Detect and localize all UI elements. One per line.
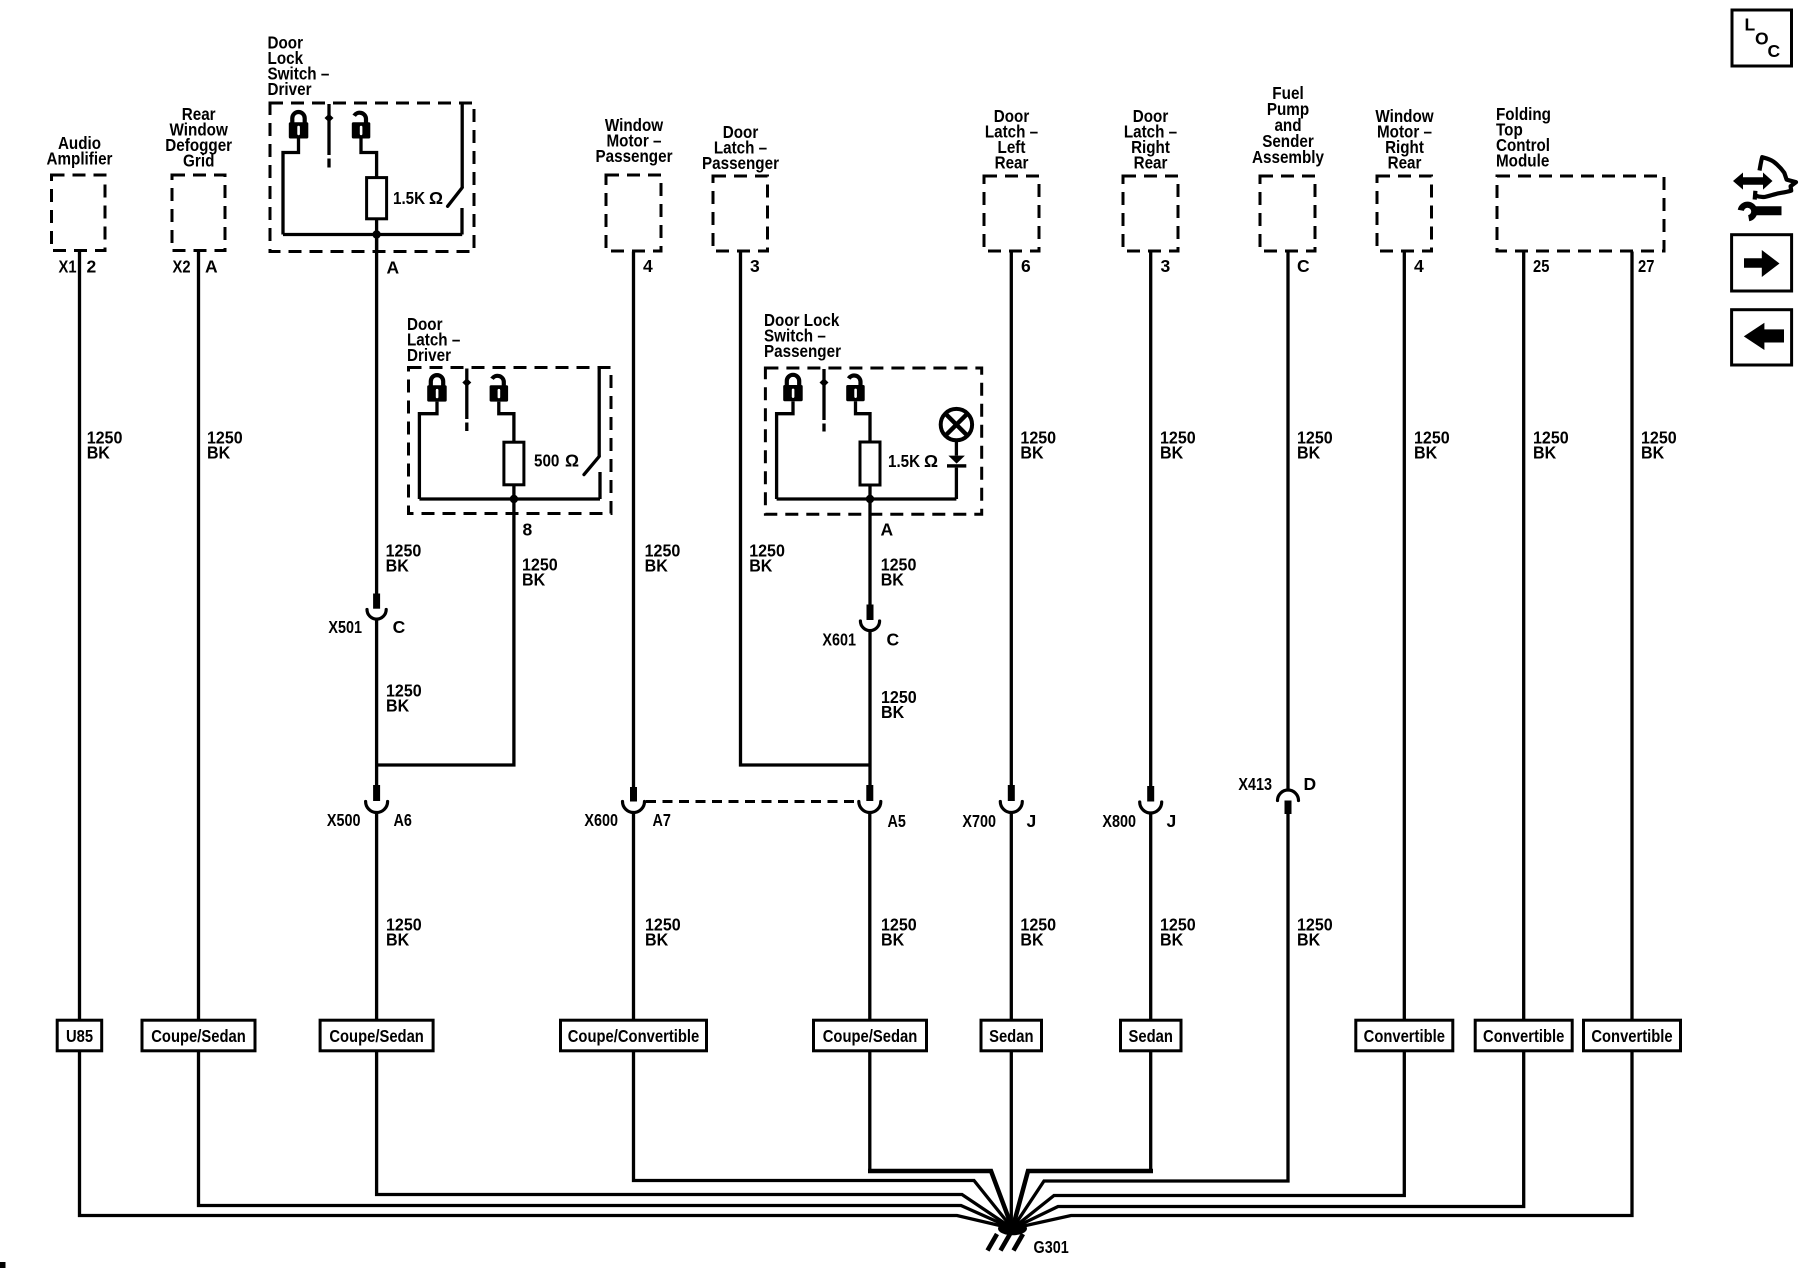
svg-text:1.5K: 1.5K (888, 451, 920, 471)
component Door Lock Switch - Driver (dashed box) (270, 103, 474, 252)
svg-text:Coupe/Sedan: Coupe/Sedan (329, 1026, 424, 1046)
wire 1250 BK from X501 to X500 (375, 619, 378, 786)
wire 1250 BK from Window Motor Right Rear pin 4 to G301 (1013, 252, 1405, 1229)
label Door Latch - Right Rear (1124, 106, 1178, 173)
wire label 1250 BK (door lock sw passenger) (881, 555, 917, 590)
connector X700 pin J (1000, 785, 1022, 813)
wire label 1250 BK (door latch driver) (522, 555, 558, 590)
ground G301 node blob (998, 1222, 1027, 1236)
svg-text:3: 3 (750, 256, 760, 276)
label Door Latch - Left Rear (985, 106, 1039, 173)
svg-text:2: 2 (87, 257, 97, 277)
svg-text:8: 8 (523, 520, 533, 540)
junction dot, Door Lock Switch Passenger (866, 495, 874, 503)
component Window Motor - Passenger (dashed box) (606, 175, 661, 251)
component Folding Top Control Module (dashed box) (1497, 176, 1664, 251)
label Door Latch - Passenger (702, 122, 779, 173)
switch common contact arm with pivot diamond, Door Lock Switch Driver (325, 104, 334, 168)
svg-text:Convertible: Convertible (1364, 1026, 1446, 1046)
junction dot, Door Latch Driver (510, 495, 518, 503)
label Window Motor - Right Rear (1375, 106, 1434, 173)
wire 1250 BK from Audio Amplifier X1-2 to G301 (80, 251, 1013, 1229)
svg-text:Convertible: Convertible (1483, 1026, 1565, 1046)
svg-text:BK: BK (1020, 442, 1044, 462)
svg-text:C: C (1297, 256, 1310, 276)
svg-text:A6: A6 (394, 810, 413, 830)
option box U85 (57, 1020, 101, 1051)
option box Coupe/Sedan (door lock switch driver) (320, 1020, 433, 1051)
svg-text:Convertible: Convertible (1591, 1026, 1673, 1046)
svg-text:Rear: Rear (995, 153, 1029, 173)
wire from open-lock contact to resistor, Door Latch Driver (499, 402, 514, 443)
svg-text:Sedan: Sedan (989, 1026, 1033, 1046)
bottom rail wire, Door Lock Switch Driver (283, 233, 462, 236)
svg-text:BK: BK (1297, 442, 1321, 462)
resistor 1.5K ohm, Door Lock Switch Driver (367, 178, 387, 219)
wire junction to pin A, Door Lock Switch Driver (375, 235, 378, 252)
option box Coupe/Sedan (defogger) (142, 1020, 255, 1051)
wire label 1250 BK (door latch passenger) (749, 541, 785, 576)
svg-text:X800: X800 (1102, 811, 1136, 831)
svg-text:C: C (887, 630, 900, 650)
wire label 1250 BK (fuel pump) (1297, 427, 1333, 462)
component Fuel Pump and Sender Assembly (dashed box) (1260, 176, 1315, 251)
svg-text:Rear: Rear (1388, 153, 1422, 173)
wire 1250 BK from Folding Top Control Module pin 25 to G301 (1013, 252, 1524, 1229)
wire 1250 BK from X600 to G301 (634, 813, 1013, 1229)
wire lamp to diode (955, 440, 958, 455)
wire 1250 BK from Window Motor Passenger pin 4 to X600 (632, 252, 635, 788)
svg-text:BK: BK (645, 929, 669, 949)
svg-text:4: 4 (1414, 256, 1424, 276)
connector X500 pin A6 (366, 785, 388, 813)
svg-text:BK: BK (749, 556, 773, 576)
padlock open icon (unlock position), Door Lock Switch Passenger (846, 376, 865, 402)
switch common contact arm with pivot diamond, Door Lock Switch Passenger (820, 369, 829, 432)
wire 1250 BK from X800 to G301 (1149, 813, 1152, 1171)
wire resistor to bottom rail, Door Latch Driver (512, 485, 515, 499)
switch contact vertical, Door Latch Driver (598, 369, 601, 457)
wire thick bus from A5 branch into G301 (868, 1171, 1013, 1229)
wire label 1250 BK (above fuel pump bend) (1297, 914, 1333, 949)
label Rear Window Defogger Grid (165, 104, 232, 171)
wire label 1250 BK (above Coupe/Sedan 3) (881, 914, 917, 949)
svg-text:A: A (881, 520, 894, 540)
wire 1250 BK from Door Latch Left Rear pin 6 to X700 (1010, 252, 1013, 786)
svg-text:BK: BK (386, 556, 410, 576)
connector A5 (859, 785, 881, 813)
label Door Lock Switch - Passenger (764, 310, 841, 361)
svg-text:D: D (1304, 774, 1317, 794)
svg-text:Sedan: Sedan (1129, 1026, 1173, 1046)
wire from closed-lock contact to bottom rail, Door Lock Switch Passenger (777, 401, 793, 499)
wire label 1250 BK (door latch left rear) (1020, 427, 1056, 462)
wire label 1250 BK (above Sedan 2) (1160, 914, 1196, 949)
wire 1250 BK from Door Latch Driver pin 8 to junction (377, 499, 514, 765)
svg-text:C: C (393, 617, 406, 637)
wire label 1250 BK (above Coupe/Convertible) (645, 914, 681, 949)
wire label 1250 BK (defogger) (207, 427, 243, 462)
option box Coupe/Sedan (door lock switch passenger) (814, 1020, 927, 1051)
indicator lamp (circle-X), Door Lock Switch Passenger (941, 409, 972, 440)
option box Convertible (FTCM 25) (1475, 1020, 1572, 1051)
wire 1250 BK from Folding Top Control Module pin 27 to G301 (1013, 252, 1633, 1229)
option box Coupe/Convertible (window motor passenger) (561, 1020, 707, 1051)
component Door Latch - Driver (dashed box) (409, 368, 612, 514)
svg-text:X500: X500 (327, 810, 361, 830)
wire resistor to bottom rail, Door Lock Switch Passenger (868, 485, 871, 499)
svg-text:J: J (1167, 811, 1177, 831)
svg-text:BK: BK (1533, 442, 1557, 462)
switch lower stub, Door Latch Driver (598, 472, 601, 499)
wire label 1250 BK (above Coupe/Sedan 2) (386, 914, 422, 949)
switch common contact arm with pivot diamond, Door Latch Driver (462, 369, 471, 432)
svg-text:J: J (1027, 811, 1037, 831)
wire label 1250 BK (FTCM 25) (1533, 427, 1569, 462)
svg-text:BK: BK (87, 442, 111, 462)
svg-text:Module: Module (1496, 151, 1550, 171)
padlock open icon (unlock position), Door Latch Driver (490, 376, 509, 402)
option box Convertible (window motor right rear) (1356, 1020, 1453, 1051)
wire 1250 BK from X500 to G301 (377, 812, 1013, 1229)
svg-text:BK: BK (522, 570, 546, 590)
svg-text:BK: BK (645, 556, 669, 576)
svg-text:BK: BK (1020, 929, 1044, 949)
component Door Latch - Right Rear (dashed box) (1123, 176, 1178, 251)
icon right-arrow box (1732, 235, 1792, 291)
svg-text:X601: X601 (822, 630, 856, 650)
label Fuel Pump and Sender Assembly (1252, 83, 1324, 167)
wire label 1250 BK (below X601) (881, 687, 917, 722)
svg-text:25: 25 (1533, 256, 1550, 276)
connector X601 pin C (860, 605, 879, 631)
wire 1250 BK from Door Latch Right Rear pin 3 to X800 (1149, 252, 1152, 787)
svg-text:Ω: Ω (924, 451, 938, 471)
wire diode to bottom rail (955, 468, 958, 499)
svg-text:X1: X1 (59, 257, 77, 277)
svg-text:Ω: Ω (429, 188, 443, 208)
component Audio Amplifier (dashed box) (52, 175, 106, 251)
svg-text:BK: BK (881, 570, 905, 590)
padlock closed icon (lock position), Door Lock Switch Driver (289, 112, 309, 139)
svg-text:A: A (205, 257, 218, 277)
junction dot, Door Lock Switch Driver (372, 230, 380, 238)
svg-text:BK: BK (1160, 929, 1184, 949)
resistor 500 ohm, Door Latch Driver (504, 442, 524, 485)
svg-text:Passenger: Passenger (596, 146, 673, 166)
component Rear Window Defogger Grid (dashed box) (172, 175, 225, 251)
svg-text:BK: BK (1414, 442, 1438, 462)
svg-text:Passenger: Passenger (702, 153, 779, 173)
switch blade (open), Door Lock Switch Driver (448, 188, 463, 207)
component Door Lock Switch - Passenger (dashed box) (765, 368, 981, 514)
padlock open icon (unlock position), Door Lock Switch Driver (352, 113, 371, 139)
svg-text:BK: BK (386, 929, 410, 949)
svg-text:Coupe/Convertible: Coupe/Convertible (568, 1026, 700, 1046)
icon left-arrow box (1732, 310, 1792, 365)
svg-text:A7: A7 (653, 810, 671, 830)
wire label 1250 BK (FTCM 27) (1641, 427, 1677, 462)
icon LOC box (1732, 10, 1792, 66)
svg-text:BK: BK (386, 696, 410, 716)
wire 1250 BK from X601 to A5 (868, 631, 871, 785)
svg-text:BK: BK (1160, 442, 1184, 462)
svg-text:500: 500 (534, 451, 560, 471)
svg-text:BK: BK (207, 442, 231, 462)
connector X800 pin J (1140, 786, 1162, 813)
svg-text:Passenger: Passenger (764, 341, 841, 361)
svg-text:Driver: Driver (407, 345, 451, 365)
svg-text:Amplifier: Amplifier (47, 149, 113, 169)
svg-text:4: 4 (643, 256, 653, 276)
svg-text:BK: BK (881, 929, 905, 949)
svg-text:G301: G301 (1034, 1237, 1069, 1257)
wire 1250 BK from Door Latch Passenger pin 3 to junction (741, 252, 871, 766)
ground G301 hatch marks (988, 1234, 1024, 1251)
wire from open-lock contact to resistor, Door Lock Switch Driver (361, 138, 377, 177)
wire dashed jumper X600 to A5 (646, 800, 857, 803)
connector X413 pin D (inverted) (1278, 790, 1299, 814)
wire label 1250 BK (audio amp) (87, 427, 123, 462)
wire 1250 BK from X700 to G301 (1010, 812, 1013, 1228)
svg-text:U85: U85 (66, 1026, 93, 1046)
switch contact vertical, Door Lock Switch Driver (461, 104, 464, 188)
svg-text:Coupe/Sedan: Coupe/Sedan (151, 1026, 246, 1046)
wire resistor to bottom rail, Door Lock Switch Driver (375, 219, 378, 235)
label Door Lock Switch - Driver (268, 33, 330, 100)
connector X501 pin C (367, 594, 386, 620)
svg-text:Grid: Grid (183, 151, 214, 171)
wire 1250 BK from X413 to G301 (1013, 814, 1289, 1229)
wire label 1250 BK (below X501) (386, 681, 422, 716)
option box Convertible (FTCM 27) (1584, 1020, 1681, 1051)
wire 1250 BK from A5 to G301 (868, 812, 871, 1171)
option box Sedan (door latch left rear) (981, 1020, 1042, 1051)
padlock closed icon (lock position), Door Latch Driver (427, 375, 447, 402)
svg-text:X700: X700 (962, 811, 996, 831)
svg-text:A: A (387, 258, 400, 278)
wire 1250 BK from Fuel Pump pin C to X413 (1286, 252, 1289, 791)
svg-text:Ω: Ω (565, 451, 579, 471)
wire from closed-lock contact to bottom rail, Door Lock Switch Driver (283, 138, 299, 234)
svg-text:L: L (1745, 15, 1756, 35)
svg-text:6: 6 (1021, 256, 1031, 276)
svg-text:Rear: Rear (1134, 153, 1168, 173)
svg-text:X501: X501 (328, 617, 362, 637)
svg-text:3: 3 (1161, 256, 1171, 276)
wire label 1250 BK (door lock sw driver upper) (386, 541, 422, 576)
icon diagnostic double-arrow with wrench (1733, 157, 1796, 218)
page artifact mark bottom left (0, 1262, 6, 1268)
svg-text:Coupe/Sedan: Coupe/Sedan (823, 1026, 918, 1046)
label Door Latch - Driver (407, 314, 461, 365)
diode symbol (947, 456, 966, 468)
svg-text:BK: BK (1297, 929, 1321, 949)
wire 1250 BK from Door Lock Switch Driver pin A to X501 (375, 235, 378, 594)
bottom rail wire, Door Lock Switch Passenger (777, 497, 957, 500)
svg-text:27: 27 (1638, 256, 1654, 276)
wire label 1250 BK (window motor right rear) (1414, 427, 1450, 462)
svg-text:Driver: Driver (268, 79, 312, 99)
component Door Latch - Passenger (dashed box) (713, 176, 768, 251)
wire 1250 BK from Rear Window Defogger Grid X2-A to G301 (199, 251, 1013, 1229)
switch lower stub, Door Lock Switch Driver (460, 208, 463, 235)
svg-text:BK: BK (1641, 442, 1665, 462)
wire label 1250 BK (window motor passenger) (645, 541, 681, 576)
wire from closed-lock contact to bottom rail, Door Latch Driver (419, 402, 437, 499)
svg-text:X2: X2 (173, 257, 191, 277)
wire thick bus from X800 branch into G301 (1013, 1171, 1154, 1229)
svg-text:1.5K: 1.5K (393, 188, 425, 208)
svg-text:X600: X600 (584, 810, 618, 830)
svg-text:BK: BK (881, 702, 905, 722)
component Door Latch - Left Rear (dashed box) (984, 176, 1039, 251)
label Audio Amplifier (47, 133, 113, 169)
switch blade (open), Door Latch Driver (584, 456, 599, 474)
wire label 1250 BK (above Sedan 1) (1020, 914, 1056, 949)
component Window Motor - Right Rear (dashed box) (1377, 176, 1432, 251)
bottom rail wire, Door Latch Driver (419, 497, 600, 500)
label Window Motor - Passenger (596, 115, 673, 166)
option box Sedan (door latch right rear) (1121, 1020, 1182, 1051)
wire from open-lock contact to resistor, Door Lock Switch Passenger (856, 401, 871, 442)
wire label 1250 BK (door latch right rear) (1160, 427, 1196, 462)
resistor 1.5K ohm, Door Lock Switch Passenger (860, 442, 880, 485)
svg-text:Assembly: Assembly (1252, 147, 1324, 167)
connector X600 pin A7 (623, 787, 645, 813)
label Folding Top Control Module (1496, 104, 1551, 171)
padlock closed icon (lock position), Door Lock Switch Passenger (783, 375, 803, 402)
svg-text:X413: X413 (1238, 774, 1272, 794)
svg-text:A5: A5 (888, 811, 907, 831)
wire 1250 BK from Door Lock Switch Passenger pin A to X601 (868, 499, 871, 605)
svg-text:C: C (1768, 41, 1781, 61)
